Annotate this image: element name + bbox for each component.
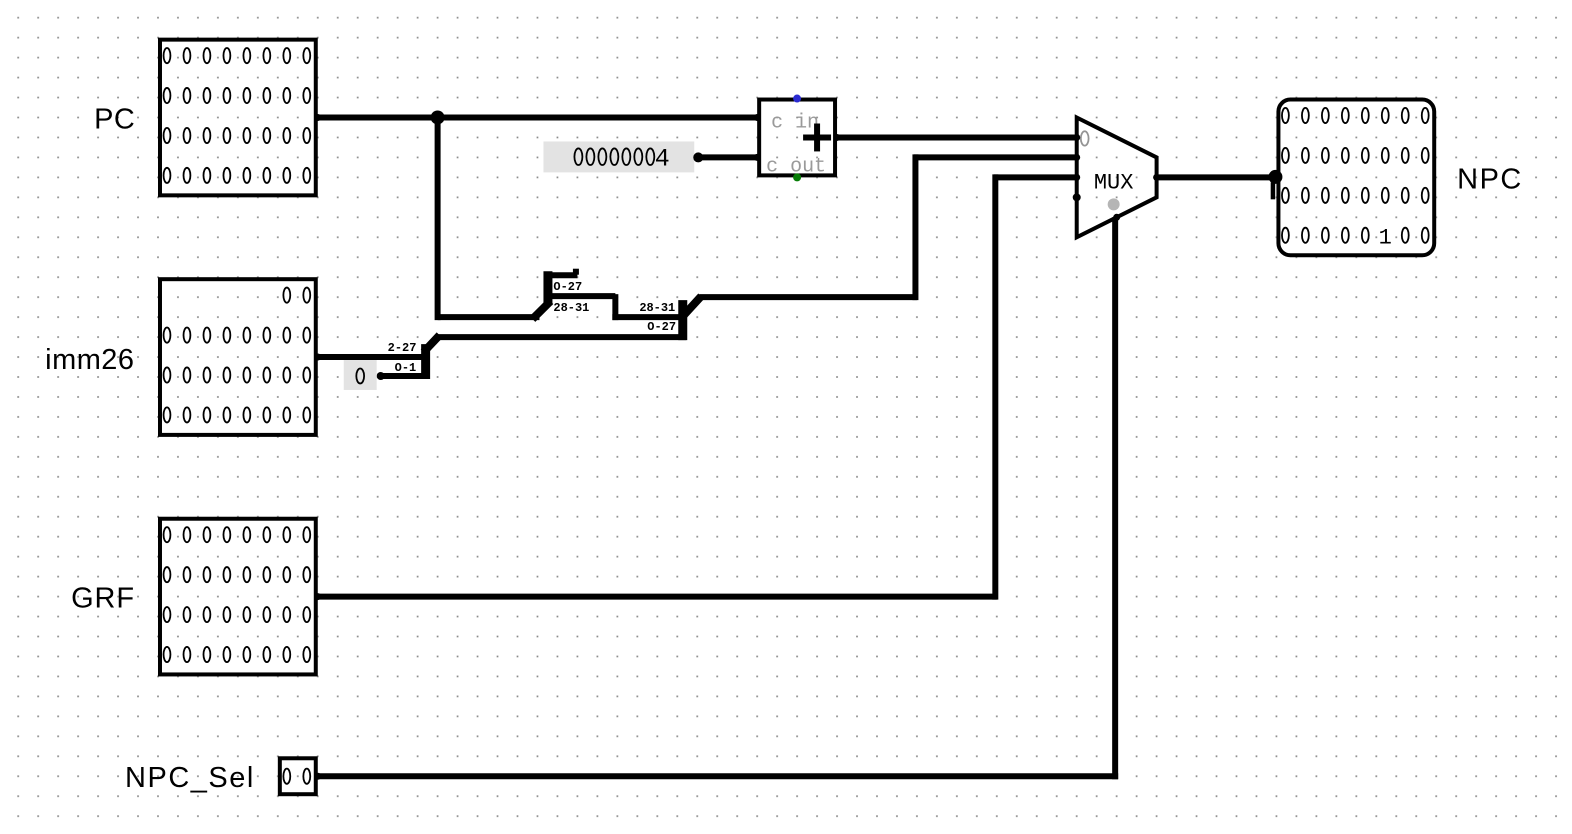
- svg-text:O-27: O-27: [647, 320, 676, 334]
- adder carry-out pin green: [793, 173, 801, 181]
- PC value row 3: [164, 128, 311, 143]
- adder plus symbol: [803, 123, 831, 151]
- input pin NPC_Sel box: [280, 758, 316, 794]
- splitter S2 fan: [680, 296, 701, 340]
- wire GRF output horizontal: [316, 594, 997, 600]
- pin connection nubs: [314, 114, 1160, 780]
- svg-text:2-27: 2-27: [388, 341, 417, 355]
- mux unconnected input pin: [1073, 193, 1081, 201]
- wire horizontal into MUX input 1: [914, 154, 1079, 160]
- NPC pin tail bar: [1271, 182, 1276, 199]
- svg-text:O-1: O-1: [395, 361, 417, 375]
- mux input 0 index label: [1081, 131, 1089, 145]
- mux U2 body: [1077, 117, 1157, 237]
- node B junction dot at NPC: [1268, 170, 1282, 184]
- NPC value row 4: [1282, 225, 1429, 250]
- wire select vertical to MUX: [1112, 217, 1118, 779]
- input pin imm26 box: [160, 279, 316, 435]
- splitter S1 leg end tick: [573, 269, 579, 275]
- constant output dot: [693, 152, 703, 162]
- probe 0 display: [344, 360, 377, 390]
- probe wire end dot: [377, 372, 385, 380]
- wire MUX output to NPC: [1155, 174, 1280, 180]
- GRF value row 4: [164, 647, 311, 662]
- GRF value row 2: [164, 567, 311, 582]
- wire adder output to MUX input 0: [835, 134, 1079, 140]
- svg-text:NPC_Sel: NPC_Sel: [125, 762, 255, 794]
- svg-text:MUX: MUX: [1094, 170, 1134, 195]
- wire vertical up to MUX input 1: [912, 154, 918, 300]
- mux select dot gray: [1108, 198, 1120, 210]
- wire splitter S1 leg to splitter S2 leg 28-31: [612, 314, 686, 320]
- wire horizontal into MUX input 2: [994, 174, 1079, 180]
- constant 00000004: [543, 141, 694, 173]
- wire splitter S2 output horizontal: [699, 294, 917, 300]
- wire splitter S3 end to splitter S2 leg 0-27: [436, 334, 687, 340]
- svg-text:4: 4: [655, 145, 670, 173]
- svg-text:O-27: O-27: [553, 280, 582, 294]
- svg-text:NPC: NPC: [1457, 163, 1523, 195]
- output pin NPC box: [1278, 100, 1434, 256]
- wire NPC_Sel horizontal: [316, 773, 1118, 779]
- NPC_Sel value: [283, 769, 310, 784]
- svg-text:imm26: imm26: [45, 344, 134, 376]
- imm26 value row 1: [283, 288, 310, 303]
- PC value row 2: [164, 88, 311, 103]
- PC value row 4: [164, 168, 311, 183]
- svg-text:28-31: 28-31: [553, 301, 589, 315]
- svg-text:28-31: 28-31: [639, 301, 675, 315]
- adder carry-in pin blue: [793, 95, 801, 103]
- imm26 value row 4: [164, 407, 311, 422]
- NPC value row 3: [1282, 188, 1429, 203]
- wire vertical up to MUX input 2: [992, 174, 998, 599]
- imm26 value row 3: [164, 367, 311, 382]
- svg-text:GRF: GRF: [71, 583, 135, 615]
- adder U1 box: [759, 100, 835, 176]
- splitter S3 fan: [380, 335, 440, 379]
- splitter S1 fan: [532, 271, 615, 320]
- svg-text:1: 1: [1379, 225, 1392, 250]
- svg-text:PC: PC: [94, 103, 135, 135]
- imm26 value row 2: [164, 327, 311, 342]
- wire imm26 output to splitter S3: [316, 354, 429, 360]
- GRF value row 3: [164, 607, 311, 622]
- input pin PC box: [160, 40, 316, 196]
- NPC value row 2: [1282, 148, 1429, 163]
- svg-text:c in: c in: [771, 110, 819, 133]
- NPC value row 1: [1282, 108, 1429, 123]
- wire node A vertical down: [435, 115, 441, 321]
- input pin GRF box: [160, 519, 316, 675]
- PC value row 1: [164, 48, 311, 63]
- GRF value row 1: [164, 527, 311, 542]
- wire PC output to adder input A: [316, 114, 759, 120]
- node A junction dot: [431, 111, 445, 125]
- wire into splitter S1 end: [438, 314, 540, 320]
- wire constant to adder input B: [695, 154, 759, 160]
